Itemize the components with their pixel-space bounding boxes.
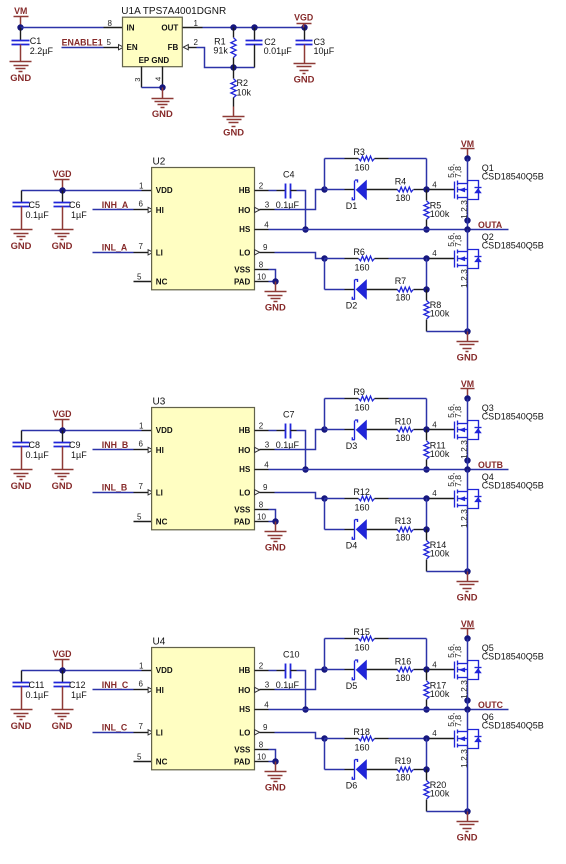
capacitor C5 (13, 191, 30, 220)
resistor R8 gate pulldown (424, 290, 429, 332)
svg-text:VSS: VSS (234, 266, 251, 275)
svg-text:10µF: 10µF (314, 46, 335, 56)
ground below C11 (11, 700, 33, 731)
svg-text:GND: GND (294, 74, 315, 85)
wire HO to high-side gate node (275, 430, 325, 450)
pin 8 lead VSS (255, 509, 269, 511)
svg-text:GND: GND (457, 352, 478, 363)
junction low-side gate (423, 735, 429, 741)
junction HO node (321, 666, 327, 672)
IC U1 TPS7A4001DGNR body (123, 17, 183, 66)
junction C2 top (251, 24, 257, 30)
wire INL_B to LI (93, 492, 134, 494)
svg-text:9: 9 (263, 483, 268, 492)
power VM Q5 (461, 619, 475, 638)
resistor R16 (397, 667, 426, 672)
ground below U4 (265, 762, 287, 793)
junction pulldown to HS (423, 466, 429, 472)
svg-text:1: 1 (139, 181, 144, 190)
pin 9 lead LO (260, 252, 275, 254)
svg-text:R6: R6 (353, 247, 365, 257)
wire VSS to PAD (269, 510, 276, 522)
junction VGD rail (59, 427, 65, 433)
svg-text:160: 160 (355, 263, 370, 273)
wire VDD rail (22, 670, 142, 672)
svg-text:VGD: VGD (52, 169, 71, 179)
wire LO to low-side gate node (275, 733, 325, 739)
svg-text:180: 180 (395, 773, 410, 783)
transistor Q5 (455, 661, 482, 680)
output arrow HO (255, 687, 260, 692)
resistor R9 bypass (325, 396, 427, 401)
junction source node upper (464, 697, 470, 703)
power VGD block U4 (52, 649, 71, 670)
capacitor C9 (54, 431, 71, 460)
ground below U3 (265, 522, 287, 553)
input arrow HI (148, 447, 153, 452)
svg-text:100k: 100k (430, 449, 450, 459)
svg-text:VM: VM (461, 379, 474, 389)
capacitor C12 (54, 671, 71, 700)
drain wire Q3 (467, 399, 469, 424)
pin 10 lead PAD (255, 521, 269, 523)
svg-text:LI: LI (156, 248, 163, 257)
svg-text:180: 180 (395, 433, 410, 443)
svg-text:R16: R16 (395, 656, 412, 666)
svg-text:100k: 100k (430, 789, 450, 799)
pin 5 lead NC (134, 281, 152, 283)
wire LO to low-side gate node (275, 493, 325, 499)
wire low gate down to diode junction (426, 499, 428, 530)
pin 1 lead VDD (142, 670, 152, 672)
pin 3 lead HO (260, 449, 275, 451)
svg-text:CSD18540Q5B: CSD18540Q5B (482, 172, 544, 182)
svg-text:R10: R10 (395, 416, 412, 426)
pin 5 lead NC (134, 521, 152, 523)
svg-text:C4: C4 (283, 170, 295, 180)
wire HS to OUTA (269, 229, 509, 231)
svg-text:U4: U4 (153, 636, 166, 647)
svg-text:VDD: VDD (156, 666, 173, 675)
wire VSS to PAD (269, 750, 276, 762)
svg-text:U1A TPS7A4001DGNR: U1A TPS7A4001DGNR (121, 6, 226, 17)
svg-text:7,8: 7,8 (453, 235, 463, 247)
junction bootstrap to HS (302, 466, 308, 472)
svg-text:4: 4 (432, 729, 437, 738)
svg-text:160: 160 (355, 163, 370, 173)
power VM Q1 (461, 139, 475, 158)
svg-text:LO: LO (239, 248, 250, 257)
wire pulldown to source (427, 571, 468, 573)
input arrow LI (148, 250, 153, 255)
wire low gate down to diode junction (426, 259, 428, 290)
svg-text:INH_C: INH_C (102, 680, 129, 690)
diode D3 (325, 420, 398, 441)
output arrow LO (255, 490, 260, 495)
wire HB to C7 (269, 430, 277, 432)
wire HO node up to bypass resistor (324, 639, 326, 670)
wire HB to C10 (269, 670, 277, 672)
svg-text:5: 5 (137, 273, 142, 282)
svg-text:10: 10 (257, 512, 266, 521)
resistor R17 gate pulldown (424, 670, 429, 710)
svg-text:GND: GND (152, 108, 173, 119)
svg-text:C11: C11 (29, 680, 45, 690)
svg-text:GND: GND (457, 832, 478, 843)
svg-text:VDD: VDD (156, 426, 173, 435)
svg-text:HS: HS (239, 465, 251, 474)
svg-text:PAD: PAD (234, 277, 251, 286)
resistor R18 (325, 736, 427, 741)
resistor R7 (397, 287, 426, 292)
svg-text:GND: GND (11, 240, 32, 251)
resistor R19 (397, 767, 426, 772)
junction bootstrap to HS (302, 706, 308, 712)
svg-text:OUT: OUT (161, 24, 178, 33)
wire PAD to ground (269, 521, 276, 523)
junction high-side gate (423, 186, 429, 192)
svg-text:INL_C: INL_C (102, 723, 128, 733)
wire bypass resistor down to gate node (426, 159, 428, 190)
svg-text:U3: U3 (153, 396, 166, 407)
svg-text:GND: GND (52, 480, 73, 491)
svg-text:VM: VM (461, 139, 474, 149)
source wire Q3 (467, 438, 469, 461)
IC U2 gate driver body (152, 168, 255, 290)
wire INH_B to HI (93, 449, 134, 451)
svg-text:GND: GND (52, 720, 73, 731)
svg-text:C8: C8 (29, 440, 41, 450)
power VGD block U2 (52, 169, 71, 190)
wire EP to GND pin (142, 87, 163, 89)
gate lead Q3 (430, 429, 455, 431)
wire pulldown to source (427, 331, 468, 333)
pin 2 lead HB (255, 670, 269, 672)
junction source ground (464, 568, 470, 574)
svg-text:10: 10 (257, 272, 266, 281)
wire INH_A to HI (93, 209, 134, 211)
diode D5 (325, 660, 398, 681)
wire HB to C4 (269, 190, 277, 192)
pin 5 lead NC (134, 761, 152, 763)
wire INL_C to LI (93, 732, 134, 734)
source wire Q4 (467, 506, 469, 572)
IC U3 gate driver body (152, 408, 255, 530)
pin 4 lead HS (255, 469, 269, 471)
capacitor C10 bootstrap (286, 664, 291, 679)
svg-text:R9: R9 (353, 387, 365, 397)
junction high-side gate (423, 666, 429, 672)
svg-text:160: 160 (355, 743, 370, 753)
ground below C1 (10, 52, 32, 83)
wire bypass resistor down to gate node (426, 399, 428, 430)
svg-text:6: 6 (139, 200, 144, 209)
svg-text:EP GND: EP GND (139, 56, 170, 65)
wire HO to high-side gate node (275, 190, 325, 210)
svg-text:FB: FB (168, 43, 179, 52)
pin 4 lead HS (255, 229, 269, 231)
power VGD block U3 (52, 409, 71, 430)
output arrow LO (255, 250, 260, 255)
svg-text:2: 2 (259, 422, 264, 431)
svg-text:1,2,3: 1,2,3 (459, 749, 469, 768)
svg-text:HO: HO (238, 446, 250, 455)
svg-text:INL_A: INL_A (102, 243, 128, 253)
wire bypass resistor down to gate node (426, 639, 428, 670)
svg-text:9: 9 (263, 243, 268, 252)
pin 3 lead EP (141, 67, 143, 88)
wire source to output (467, 701, 469, 710)
wire LO to low-side gate node (275, 253, 325, 259)
svg-text:GND: GND (265, 302, 286, 313)
svg-text:D2: D2 (346, 301, 358, 311)
ground below C9 (52, 460, 74, 491)
junction LO node (321, 495, 327, 501)
resistor R11 gate pulldown (424, 430, 429, 470)
svg-text:91k: 91k (213, 45, 228, 55)
svg-text:1,2,3: 1,2,3 (459, 440, 469, 459)
junction OUTC (464, 706, 470, 712)
svg-text:4: 4 (264, 221, 269, 230)
svg-text:INH_B: INH_B (102, 440, 128, 450)
junction source ground (464, 808, 470, 814)
svg-text:HO: HO (238, 686, 250, 695)
junction diode return (423, 526, 429, 532)
svg-text:C9: C9 (69, 440, 81, 450)
capacitor C3 (296, 28, 313, 54)
svg-text:LO: LO (239, 488, 250, 497)
svg-text:3: 3 (265, 681, 270, 690)
power VM (14, 6, 29, 28)
junction VSS/PAD (272, 278, 278, 284)
drain wire Q6 (467, 710, 469, 732)
svg-text:7,8: 7,8 (453, 475, 463, 487)
wire LO node down to diode line (324, 499, 326, 530)
pin 10 lead PAD (255, 761, 269, 763)
svg-text:1µF: 1µF (71, 450, 87, 460)
svg-text:R4: R4 (395, 176, 407, 186)
junction VM drain (464, 635, 470, 641)
svg-text:CSD18540Q5B: CSD18540Q5B (482, 720, 544, 730)
capacitor C4 bootstrap (286, 184, 291, 199)
svg-text:5: 5 (137, 513, 142, 522)
svg-text:R2: R2 (237, 78, 249, 88)
source wire Q2 (467, 266, 469, 332)
resistor R10 (397, 427, 426, 432)
svg-text:HI: HI (156, 206, 164, 215)
ground below Q4 (457, 572, 479, 603)
pin 3 lead HO (260, 689, 275, 691)
svg-text:5: 5 (107, 38, 112, 47)
pin 2 lead HB (255, 430, 269, 432)
ground below U2 (265, 282, 287, 313)
resistor R1 (231, 28, 236, 68)
drain wire Q1 (467, 159, 469, 184)
junction VGD rail (59, 187, 65, 193)
svg-text:R18: R18 (353, 727, 370, 737)
svg-text:ENABLE1: ENABLE1 (62, 38, 103, 48)
pin 4 lead GND (162, 67, 164, 88)
svg-text:PAD: PAD (234, 517, 251, 526)
svg-text:3: 3 (265, 441, 270, 450)
svg-text:NC: NC (156, 517, 168, 526)
diode D4 (325, 519, 398, 540)
pin 10 lead PAD (255, 281, 269, 283)
junction LO node (321, 735, 327, 741)
output arrow HO (255, 207, 260, 212)
svg-text:160: 160 (355, 643, 370, 653)
svg-text:INL_B: INL_B (102, 483, 127, 493)
wire low gate down to diode junction (426, 739, 428, 770)
svg-text:HS: HS (239, 705, 251, 714)
svg-text:OUTB: OUTB (478, 460, 503, 470)
pin 4 lead HS (255, 709, 269, 711)
svg-text:CSD18540Q5B: CSD18540Q5B (482, 240, 544, 250)
power VGD output (294, 13, 313, 28)
diode D2 (325, 279, 398, 300)
resistor R4 (397, 187, 426, 192)
wire C7 to HS node (291, 430, 297, 432)
svg-text:4: 4 (432, 249, 437, 258)
junction OUTA (464, 226, 470, 232)
svg-text:IN: IN (127, 24, 135, 33)
transistor Q3 (455, 421, 482, 440)
junction EP/GND (159, 84, 165, 90)
diode D6 (325, 759, 398, 780)
wire PAD to ground (269, 761, 276, 763)
svg-text:1µF: 1µF (71, 210, 87, 220)
gate lead Q5 (430, 669, 455, 671)
output arrow LO (255, 730, 260, 735)
junction diode return (423, 766, 429, 772)
pin 8 lead VSS (255, 269, 269, 271)
resistor R15 bypass (325, 636, 427, 641)
svg-text:EN: EN (127, 43, 138, 52)
svg-text:CSD18540Q5B: CSD18540Q5B (482, 652, 544, 662)
svg-text:10k: 10k (237, 88, 252, 98)
diode D1 (325, 180, 398, 201)
drain wire Q5 (467, 639, 469, 664)
gate lead Q6 (430, 738, 455, 740)
junction source node upper (464, 457, 470, 463)
capacitor C11 (13, 671, 30, 700)
svg-text:8: 8 (259, 500, 264, 509)
svg-text:INH_A: INH_A (102, 200, 129, 210)
wire VSS to PAD (269, 270, 276, 282)
svg-text:VSS: VSS (234, 746, 251, 755)
junction bootstrap to HS (302, 226, 308, 232)
wire source to output (467, 221, 469, 230)
svg-text:6: 6 (139, 680, 144, 689)
svg-text:HO: HO (238, 206, 250, 215)
wire C4 to HS node (291, 190, 297, 192)
resistor R2 (231, 68, 236, 107)
resistor R12 (325, 496, 427, 501)
svg-text:4: 4 (432, 420, 437, 429)
svg-text:R12: R12 (353, 487, 370, 497)
pin 1 lead OUT (183, 27, 203, 29)
svg-text:GND: GND (223, 126, 244, 137)
capacitor C2 (246, 28, 263, 68)
svg-text:GND: GND (265, 542, 286, 553)
svg-text:8: 8 (259, 740, 264, 749)
pin 2 lead HB (255, 190, 269, 192)
junction VSS/PAD (272, 758, 278, 764)
svg-text:LI: LI (156, 728, 163, 737)
svg-text:0.1µF: 0.1µF (276, 440, 300, 450)
svg-text:NC: NC (156, 757, 168, 766)
svg-text:0.01µF: 0.01µF (264, 46, 293, 56)
resistor R5 gate pulldown (424, 190, 429, 230)
wire FB to divider node (197, 48, 255, 68)
svg-text:7: 7 (139, 242, 144, 251)
ground below Q6 (457, 812, 479, 843)
svg-text:R7: R7 (395, 276, 407, 286)
svg-text:8: 8 (259, 260, 264, 269)
capacitor C1 (12, 28, 30, 52)
svg-text:C1: C1 (30, 36, 42, 46)
resistor R13 (397, 527, 426, 532)
junction low-side gate (423, 495, 429, 501)
svg-text:R3: R3 (353, 147, 365, 157)
transistor Q6 (455, 730, 482, 749)
IC U4 gate driver body (152, 648, 255, 770)
svg-text:4: 4 (264, 701, 269, 710)
pin 9 lead LO (260, 732, 275, 734)
wire pulldown to source (427, 811, 468, 813)
pin 3 lead HO (260, 209, 275, 211)
pin 1 lead VDD (142, 190, 152, 192)
svg-text:4: 4 (432, 180, 437, 189)
wire HS to OUTB (269, 469, 509, 471)
svg-text:5: 5 (137, 753, 142, 762)
junction source node upper (464, 217, 470, 223)
svg-text:2: 2 (194, 38, 199, 47)
svg-text:100k: 100k (430, 689, 450, 699)
junction VM drain (464, 395, 470, 401)
junction VGD rail (59, 667, 65, 673)
junction VSS/PAD (272, 518, 278, 524)
svg-text:7,8: 7,8 (453, 406, 463, 418)
svg-text:1,2,3: 1,2,3 (459, 200, 469, 219)
svg-text:9: 9 (263, 723, 268, 732)
svg-text:180: 180 (395, 533, 410, 543)
ground below C8 (11, 460, 33, 491)
input arrow LI (148, 490, 153, 495)
ground below U1 (152, 88, 174, 120)
svg-text:C12: C12 (69, 680, 86, 690)
svg-text:7,8: 7,8 (453, 715, 463, 727)
capacitor C8 (13, 431, 30, 460)
svg-text:GND: GND (457, 592, 478, 603)
svg-text:GND: GND (11, 480, 32, 491)
svg-text:GND: GND (52, 240, 73, 251)
wire HO node up to bypass resistor (324, 399, 326, 430)
svg-text:2: 2 (259, 662, 264, 671)
pin 8 lead VSS (255, 749, 269, 751)
junction VM drain (464, 155, 470, 161)
svg-text:10: 10 (257, 752, 266, 761)
ground below Q2 (457, 332, 479, 363)
input arrow HI (148, 207, 153, 212)
junction diode return (423, 286, 429, 292)
svg-text:VM: VM (461, 619, 474, 629)
svg-text:D1: D1 (346, 201, 358, 211)
ground below C12 (52, 700, 74, 731)
svg-text:D4: D4 (346, 541, 358, 551)
wire INL_A to LI (93, 252, 134, 254)
svg-text:D5: D5 (346, 681, 358, 691)
